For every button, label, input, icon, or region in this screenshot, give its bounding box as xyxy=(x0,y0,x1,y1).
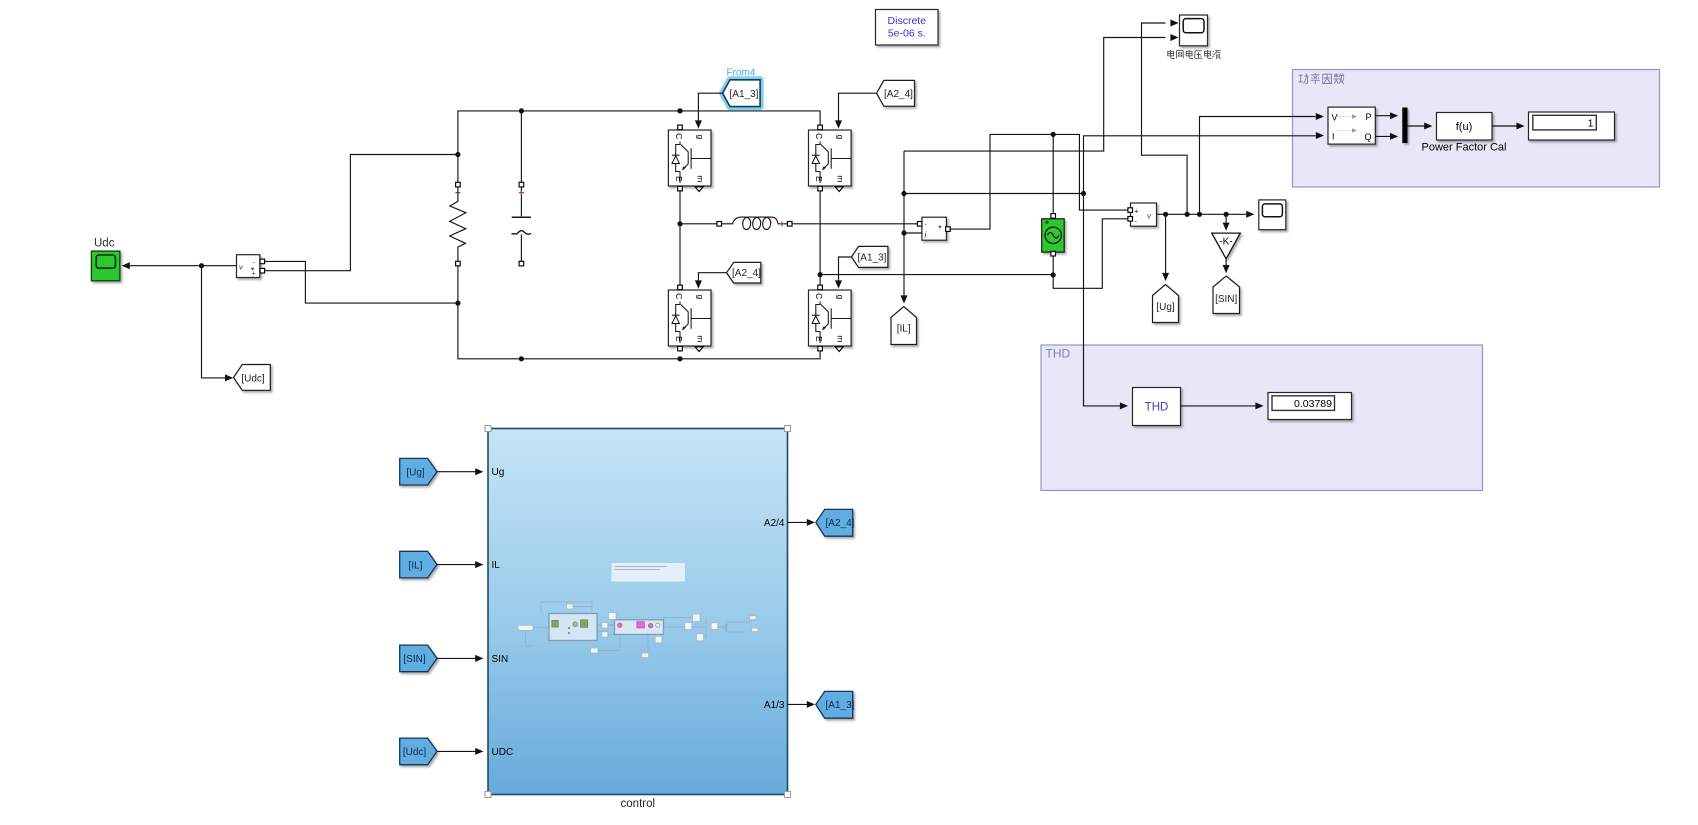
from tag [A2_4] lower xyxy=(727,262,762,283)
wire left leg mid xyxy=(677,191,717,287)
wire grid return: leg to source bottom, v- xyxy=(1051,219,1129,288)
capacitor C (DC link) xyxy=(512,113,531,266)
wire DC bus top rail xyxy=(458,108,820,182)
wire right leg mid xyxy=(818,191,1052,287)
from tag From4 [A1_3] selected xyxy=(723,68,761,107)
wire [Udc] to control xyxy=(437,748,483,755)
current measurement I1 xyxy=(917,217,950,240)
area THD panel xyxy=(1041,345,1483,491)
wire Ug to gain xyxy=(1223,214,1230,231)
svg-text:SIN: SIN xyxy=(492,654,509,665)
from tag [Ug] blue xyxy=(400,458,437,485)
wire [SIN] to control xyxy=(437,655,483,662)
svg-text:f(u): f(u) xyxy=(1456,121,1473,133)
powergui Discrete block xyxy=(876,10,939,46)
svg-text:Discrete: Discrete xyxy=(888,15,927,27)
wire IL into THD block xyxy=(1084,400,1129,409)
goto tag [A2_4] blue xyxy=(816,509,855,536)
area 功率因数 power-factor panel xyxy=(1293,70,1660,188)
subsystem control xyxy=(485,426,791,811)
gain -K- xyxy=(1212,233,1241,259)
wire scope Udc input xyxy=(122,262,202,269)
scope grid V/I (电网电压电流) xyxy=(1168,15,1221,58)
wire IL to power I input and THD xyxy=(1081,136,1316,402)
svg-text:5e-06 s.: 5e-06 s. xyxy=(888,28,926,40)
svg-text:[Ug]: [Ug] xyxy=(1156,302,1175,313)
resistor R (DC load) xyxy=(450,182,466,266)
svg-text:V: V xyxy=(1332,113,1338,123)
fcn block f(u) Power Factor Cal xyxy=(1422,113,1507,154)
svg-text:[A1_3]: [A1_3] xyxy=(730,89,759,100)
IGBT Q3 (bottom left) xyxy=(668,285,711,351)
svg-text:Ug: Ug xyxy=(492,467,505,478)
svg-text:+: + xyxy=(1134,207,1139,216)
svg-text:[A1_3]: [A1_3] xyxy=(826,700,855,711)
wire P to mux xyxy=(1375,112,1398,119)
from tag [IL] blue xyxy=(400,551,437,578)
scope Udc xyxy=(91,238,120,281)
wire f(u) to display xyxy=(1492,123,1525,130)
goto tag [A1_3] blue xyxy=(816,691,855,718)
svg-text:0.03789: 0.03789 xyxy=(1294,398,1332,410)
wire [Ug] to control xyxy=(437,468,483,475)
svg-text:A2/4: A2/4 xyxy=(764,518,785,529)
wire grid live: i-block out over to v+ tap xyxy=(950,132,1128,229)
svg-text:UDC: UDC xyxy=(492,747,514,758)
inductor L1 xyxy=(717,217,792,229)
wire [A2_4] to Q2 gate xyxy=(835,93,877,128)
svg-text:control: control xyxy=(621,798,656,810)
voltage measurement U1 (DC link) xyxy=(237,255,265,278)
wire v-meter top port to DC- node xyxy=(265,261,461,305)
power measurement block PQ xyxy=(1316,107,1376,144)
scope grid mid xyxy=(1246,200,1286,230)
svg-text:Q: Q xyxy=(1364,132,1371,142)
wire Ug to scope input1 xyxy=(1142,23,1188,214)
svg-text:+: + xyxy=(252,271,256,278)
svg-text:[Udc]: [Udc] xyxy=(403,747,427,758)
wire [A2_4] to Q3 gate xyxy=(695,273,727,289)
control preview note box xyxy=(612,563,686,582)
wire IL to grid scope input2 xyxy=(904,38,1166,152)
IGBT Q4 (bottom right) xyxy=(809,285,852,351)
wire Q to mux xyxy=(1375,133,1398,140)
wire control A1/3 out xyxy=(788,701,816,708)
svg-text:-K-: -K- xyxy=(1219,237,1232,248)
wire mux to f(u) xyxy=(1408,123,1433,130)
wire Ug down to goto [Ug] xyxy=(1162,214,1169,281)
svg-text:[A1_3]: [A1_3] xyxy=(858,253,887,264)
wire v-meter output to scope/goto junction xyxy=(199,263,237,378)
wire source top feed xyxy=(1052,136,1054,214)
svg-text:[IL]: [IL] xyxy=(409,560,423,571)
wire From4 to Q1 gate xyxy=(695,93,723,128)
wire Ug signal trunk xyxy=(1157,212,1247,217)
IGBT Q2 (top right) xyxy=(809,125,852,191)
wire inductor to current measurement xyxy=(792,223,918,225)
IGBT Q1 (top left) xyxy=(668,125,711,191)
svg-text:[A2_4]: [A2_4] xyxy=(884,89,913,100)
THD block xyxy=(1133,388,1181,426)
wire IL signal trunk to [IL] tag xyxy=(901,151,1084,304)
goto tag [Ug] xyxy=(1153,285,1179,323)
wire Ug to power V input xyxy=(1200,117,1316,215)
wire control A2/4 out xyxy=(788,519,816,526)
svg-text:IL: IL xyxy=(492,560,501,571)
display THD value xyxy=(1268,393,1352,420)
svg-text:P: P xyxy=(1365,112,1371,122)
svg-text:[Udc]: [Udc] xyxy=(241,373,265,384)
goto tag [Udc] xyxy=(225,365,270,391)
svg-text:[IL]: [IL] xyxy=(897,323,911,334)
from tag [SIN] blue xyxy=(400,645,437,672)
wire v-meter bottom port to DC+ node xyxy=(265,152,461,271)
voltage measurement U2 (grid) xyxy=(1128,203,1157,226)
svg-text:[SIN]: [SIN] xyxy=(403,654,425,665)
svg-text:i: i xyxy=(925,231,927,240)
svg-text:THD: THD xyxy=(1145,402,1169,414)
wire [A1_3] to Q4 gate xyxy=(835,257,851,289)
control preview subchart 1 xyxy=(549,614,597,641)
svg-text:[Ug]: [Ug] xyxy=(406,468,425,479)
control preview small blocks xyxy=(518,604,758,658)
svg-text:Udc: Udc xyxy=(94,238,115,250)
svg-text:[SIN]: [SIN] xyxy=(1215,294,1237,305)
goto tag [SIN] xyxy=(1213,276,1240,314)
from tag [A1_3] lower xyxy=(851,246,888,267)
AC source V2 (grid) xyxy=(1042,214,1065,256)
svg-text:[A2_4]: [A2_4] xyxy=(826,518,855,529)
svg-text:A1/3: A1/3 xyxy=(764,700,785,711)
svg-text:1: 1 xyxy=(1588,117,1594,129)
control preview subchart 2 xyxy=(615,620,664,635)
svg-text:Power Factor Cal: Power Factor Cal xyxy=(1422,142,1507,154)
svg-text:THD: THD xyxy=(1046,347,1071,361)
svg-text:I: I xyxy=(1332,132,1335,142)
display PF value xyxy=(1529,112,1615,140)
mux xyxy=(1402,108,1407,144)
wire gain to goto [SIN] xyxy=(1223,259,1230,273)
from tag [Udc] blue xyxy=(400,738,437,765)
wire THD to display xyxy=(1181,402,1264,409)
wire DC bus bottom rail xyxy=(458,266,820,361)
wire [IL] to control xyxy=(437,561,483,568)
control preview wires xyxy=(526,602,757,655)
from tag [A2_4] top xyxy=(877,80,915,106)
svg-text:[A2_4]: [A2_4] xyxy=(732,268,761,279)
goto tag [IL] xyxy=(891,307,917,345)
